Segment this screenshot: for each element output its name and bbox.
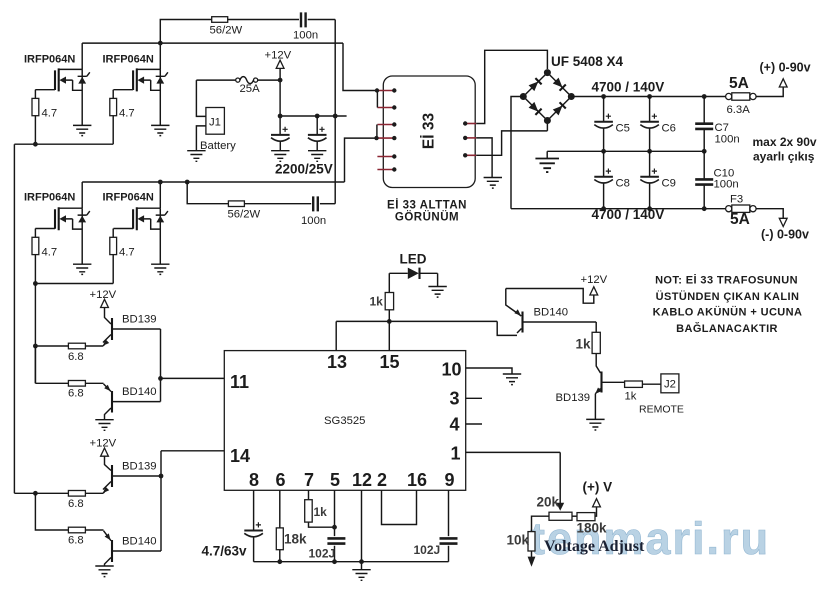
svg-text:15: 15	[380, 352, 400, 372]
resistor 18k	[276, 528, 283, 550]
svg-text:max 2x 90v: max 2x 90v	[753, 135, 817, 149]
svg-text:UF 5408 X4: UF 5408 X4	[551, 54, 624, 69]
svg-text:4.7: 4.7	[119, 108, 135, 120]
ground Q10	[586, 419, 604, 430]
ground pin10	[503, 374, 521, 385]
wire Q3 drain to rail B	[81, 182, 83, 208]
svg-text:Eİ 33: Eİ 33	[421, 113, 438, 150]
wire +12V to Q7 collector	[105, 456, 112, 470]
node mid C5	[601, 149, 606, 154]
terminal plus V arrow	[593, 499, 601, 507]
svg-text:ÜSTÜNDEN ÇIKAN KALIN: ÜSTÜNDEN ÇIKAN KALIN	[656, 290, 800, 303]
node bridge top	[544, 69, 551, 76]
node rail C6	[647, 94, 652, 99]
wire short L1-L2	[376, 91, 378, 108]
wire gate bus lower pair	[35, 283, 113, 285]
resistor R gate2 4.7	[110, 98, 117, 115]
node gate bus / R gate1	[33, 142, 38, 147]
svg-text:GÖRÜNÜM: GÖRÜNÜM	[395, 211, 459, 224]
resistor 56/2W upper	[212, 17, 228, 23]
ground mid rail	[546, 151, 548, 158]
power +12V arrow driver1	[101, 299, 109, 307]
node mid C7	[702, 149, 707, 154]
wire R gate4 to gate bus2	[112, 255, 114, 284]
resistor R gate4 4.7	[110, 237, 117, 254]
node rail C5	[601, 94, 606, 99]
svg-text:BD139: BD139	[556, 392, 591, 404]
wire battery J1 minus lead	[196, 126, 206, 151]
svg-text:C7: C7	[715, 122, 729, 134]
wire gate bus2 down to driver1 out	[34, 284, 36, 384]
ground cap 2200 a	[271, 151, 289, 162]
capacitor 4.7/63v	[244, 522, 263, 537]
diode D3 bridge bottom-left	[528, 102, 541, 115]
svg-text:18k: 18k	[284, 532, 307, 547]
wire branch to 6.8d	[35, 493, 68, 530]
svg-text:5A: 5A	[729, 75, 749, 92]
ground transformer R2	[484, 178, 502, 189]
node rail B / snubber2	[185, 180, 190, 185]
transistor Q1 IRFP064N	[35, 68, 91, 135]
transformer pin L1	[377, 90, 394, 92]
wire snubber2 mid	[244, 203, 311, 205]
wire 1k to J2	[642, 383, 661, 385]
wire 6.8a to gate node	[35, 345, 68, 347]
capacitor 102J b	[440, 538, 458, 543]
svg-text:102J: 102J	[309, 547, 336, 561]
fuse 5A plus	[726, 93, 732, 99]
fuse 25A	[236, 78, 240, 82]
transformer pin R1	[465, 123, 476, 125]
fuse F3 5A minus	[726, 206, 732, 212]
potentiometer 20k	[549, 512, 572, 520]
arrow 10k to minus	[528, 557, 536, 567]
resistor R gate3 4.7	[32, 237, 39, 254]
svg-text:25A: 25A	[240, 83, 261, 95]
svg-text:6.8: 6.8	[68, 388, 84, 400]
svg-text:6.8: 6.8	[68, 498, 84, 510]
svg-text:+12V: +12V	[90, 289, 117, 301]
svg-text:Battery: Battery	[200, 140, 236, 152]
terminal minus arrow	[779, 218, 787, 226]
wire Q2 drain to rail A	[159, 43, 161, 69]
wire emitter Q7 to 6.8c	[85, 492, 104, 494]
diode LED	[389, 272, 437, 274]
svg-text:1k: 1k	[370, 295, 384, 309]
svg-text:10: 10	[442, 360, 462, 380]
wire pin12 down	[361, 490, 363, 569]
resistor 6.8 d	[68, 527, 85, 533]
ground LED	[428, 287, 446, 298]
resistor 6.8 a	[68, 343, 85, 349]
svg-text:4700 / 140V: 4700 / 140V	[592, 80, 665, 95]
node driver1 out	[33, 344, 38, 349]
power +12V arrow battery	[276, 60, 284, 68]
rectifier bridge UF5408 edges	[523, 73, 571, 121]
svg-text:56/2W: 56/2W	[228, 209, 261, 221]
node rail B / Q4	[158, 180, 163, 185]
wire short L3-L4	[376, 125, 378, 139]
svg-text:(+) 0-90v: (+) 0-90v	[760, 61, 811, 75]
svg-text:F3: F3	[730, 194, 743, 206]
svg-text:6.3A: 6.3A	[727, 104, 751, 116]
svg-text:4.7: 4.7	[119, 246, 135, 258]
capacitor C6	[649, 97, 651, 152]
transformer pin L2	[377, 107, 394, 109]
svg-text:6.8: 6.8	[68, 351, 84, 363]
wire pin R2 to ground	[476, 138, 492, 178]
wire led node bus	[336, 321, 517, 335]
connector J2	[661, 374, 679, 393]
svg-text:6.8: 6.8	[68, 535, 84, 547]
node pin L1 external	[375, 88, 379, 92]
svg-text:11: 11	[230, 372, 249, 392]
capacitor 100n lower	[313, 196, 318, 211]
wire bottom rail	[254, 561, 449, 563]
wire +12V to Q5 collector	[105, 308, 112, 325]
wire pin 11	[161, 377, 225, 379]
capacitor C9	[649, 151, 651, 208]
svg-text:180k: 180k	[577, 521, 608, 536]
power +12V arrow right	[590, 287, 598, 295]
wire Q2 gate down	[112, 90, 114, 99]
diode D1 bridge top-left	[528, 78, 541, 91]
svg-text:12: 12	[352, 470, 372, 490]
wire driver1 base bus	[160, 329, 162, 402]
svg-text:J2: J2	[664, 379, 676, 391]
wire pin4 stub	[466, 423, 482, 425]
svg-text:9: 9	[445, 470, 455, 490]
svg-text:J1: J1	[209, 117, 221, 129]
svg-text:100n: 100n	[715, 134, 740, 146]
node rail 102J	[332, 559, 337, 564]
wire LED cathode to ground	[437, 273, 439, 286]
wire pin6 down	[279, 490, 281, 561]
svg-text:100n: 100n	[714, 179, 739, 191]
wire fuse to plus terminal	[756, 87, 783, 97]
transistor Q3 IRFP064N	[35, 207, 91, 274]
wire fuse to +12V node	[258, 79, 280, 81]
svg-text:56/2W: 56/2W	[210, 25, 243, 37]
wire pin3 stub	[466, 397, 482, 399]
node bot C10	[702, 206, 707, 211]
ground Q8	[95, 566, 113, 577]
diode D4 bridge bottom-right	[553, 102, 566, 115]
svg-text:REMOTE: REMOTE	[639, 404, 684, 416]
svg-text:BD140: BD140	[122, 536, 157, 548]
svg-text:BD140: BD140	[122, 386, 157, 398]
wire pin15 up	[388, 321, 390, 350]
svg-text:100n: 100n	[301, 215, 326, 227]
wire snubber2 left riser	[187, 182, 228, 204]
wire pot left to 10k	[532, 516, 550, 531]
node bridge right	[568, 93, 575, 100]
node rail pin12	[359, 559, 364, 564]
transistor Q6 BD140	[111, 391, 113, 413]
svg-text:4.7/63v: 4.7/63v	[202, 544, 248, 559]
wire emitter1 to 6.8a	[85, 344, 104, 346]
transistor Q8 BD140	[111, 540, 113, 562]
node pin14 junction	[159, 474, 164, 479]
wire rail B	[82, 138, 374, 182]
wire pin7 down	[309, 490, 335, 527]
svg-text:IRFP064N: IRFP064N	[103, 192, 154, 204]
svg-text:NOT: Eİ 33 TRAFOSUNUN: NOT: Eİ 33 TRAFOSUNUN	[655, 274, 798, 287]
transistor Q9 BD140	[521, 312, 523, 333]
wire +12V rail to caps	[280, 115, 347, 117]
wire mid rail	[547, 150, 704, 152]
capacitor C8	[603, 151, 605, 208]
svg-text:2200/25V: 2200/25V	[275, 162, 333, 177]
node +12V rail / cap1	[278, 114, 283, 119]
wire pin R3 to bridge bottom	[476, 121, 547, 155]
svg-text:2: 2	[377, 470, 387, 490]
ground battery	[187, 151, 205, 162]
svg-text:16: 16	[407, 470, 427, 490]
ground pin12	[352, 570, 370, 581]
wire snubber1 right riser	[308, 20, 336, 204]
wire Q1 drain to rail A	[81, 43, 83, 69]
diode D2 bridge top-right	[553, 77, 566, 90]
resistor 10k	[528, 532, 535, 551]
node bridge bottom	[544, 117, 551, 124]
svg-text:5A: 5A	[730, 211, 750, 228]
svg-text:13: 13	[327, 352, 347, 372]
svg-text:102J: 102J	[414, 543, 441, 557]
svg-text:+12V: +12V	[265, 50, 292, 62]
svg-text:C5: C5	[616, 123, 630, 135]
node driver2 out	[33, 491, 38, 496]
svg-text:1: 1	[451, 444, 461, 464]
svg-text:14: 14	[230, 446, 250, 466]
svg-text:7: 7	[304, 470, 314, 490]
resistor 56/2W lower	[228, 201, 244, 207]
wire gate bus upper pair	[14, 143, 113, 145]
svg-text:KABLO AKÜNÜN + UCUNA: KABLO AKÜNÜN + UCUNA	[653, 306, 803, 319]
transistor Q10 BD139	[600, 372, 602, 393]
wire pin9 down	[448, 490, 450, 561]
wire 6.8b to emitter2	[85, 382, 103, 384]
svg-text:IRFP064N: IRFP064N	[24, 192, 75, 204]
node fuse / +12V	[278, 78, 283, 83]
wire 6.8b left	[35, 346, 68, 383]
ground Q6	[95, 420, 113, 431]
ground cap 2200 b	[308, 151, 326, 162]
transistor Q2 IRFP064N	[113, 68, 169, 135]
capacitor 2200/25V b	[308, 127, 327, 142]
IC U1 SG3525 box	[224, 351, 465, 491]
wire Q4 gate down	[112, 229, 114, 238]
svg-text:BD140: BD140	[534, 307, 569, 319]
resistor 1k led	[388, 273, 390, 321]
transformer T1 body EI33	[383, 76, 475, 188]
svg-text:BAĞLANACAKTIR: BAĞLANACAKTIR	[676, 322, 778, 335]
wire pin5 down	[334, 490, 336, 561]
svg-text:20k: 20k	[537, 495, 560, 510]
node gate bus2	[33, 281, 38, 286]
capacitor C7 100n	[703, 97, 705, 152]
transistor Q4 IRFP064N	[113, 207, 169, 274]
node +12V rail / cap2	[315, 114, 320, 119]
node rail A / Q2 / snubber1	[158, 41, 163, 46]
wire R gate1 to gate bus	[34, 116, 36, 145]
svg-text:100n: 100n	[293, 30, 318, 42]
transistor Q7 BD139	[111, 465, 113, 487]
svg-text:1k: 1k	[576, 337, 592, 352]
svg-text:Voltage Adjust: Voltage Adjust	[544, 538, 645, 555]
wire snubber1 left riser	[160, 20, 211, 44]
transformer pin L4	[377, 137, 394, 139]
wire 180k to plusV	[595, 507, 597, 516]
wire pin8 down	[253, 490, 255, 561]
node pin11 junction	[158, 376, 163, 381]
wire battery J1 plus lead	[196, 80, 206, 116]
wire 10k down	[531, 551, 533, 557]
resistor 1k pin7	[305, 500, 313, 522]
svg-text:(+) V: (+) V	[583, 480, 613, 495]
wire driver2 out bus	[14, 492, 68, 494]
capacitor 2200/25V a	[271, 127, 290, 142]
svg-text:SG3525: SG3525	[324, 415, 365, 427]
wire +12V to fuse node	[279, 68, 281, 134]
resistor R gate1 4.7	[32, 98, 39, 115]
transistor Q5 BD139	[111, 318, 113, 340]
svg-text:LED: LED	[400, 252, 427, 267]
svg-text:4: 4	[450, 415, 460, 435]
wire pin R1 to bridge top	[476, 50, 547, 123]
svg-text:5: 5	[330, 470, 340, 490]
svg-text:+12V: +12V	[581, 274, 608, 286]
transformer pin R2	[465, 137, 476, 139]
arrow pot wiper	[556, 503, 564, 511]
svg-text:4700 / 140V: 4700 / 140V	[592, 207, 665, 222]
node rail 18k	[277, 559, 282, 564]
wire Q1 gate down	[34, 90, 36, 99]
wire Q3 gate down	[34, 229, 36, 238]
node bot C9	[647, 206, 652, 211]
wire driver2 base bus	[160, 451, 162, 551]
node led bus	[387, 319, 392, 324]
svg-text:1k: 1k	[314, 505, 328, 519]
wire snubber1 mid	[228, 19, 299, 21]
wire pin10	[466, 368, 512, 374]
svg-text:C6: C6	[662, 123, 676, 135]
node pin L4 external	[374, 136, 378, 140]
svg-text:+12V: +12V	[90, 438, 117, 450]
resistor 180k	[577, 513, 595, 521]
svg-text:ayarlı çıkış: ayarlı çıkış	[753, 150, 815, 164]
wire bridge left to minus rail	[511, 97, 523, 209]
wire 6.8d to emitter Q8	[85, 529, 103, 531]
node bot C8	[601, 206, 606, 211]
wire R gate3 to gate bus2	[34, 255, 36, 284]
wire +12V right to BD140 emitter	[506, 289, 594, 317]
wire fuse F3 to minus terminal	[756, 209, 783, 219]
svg-text:(-) 0-90v: (-) 0-90v	[761, 228, 809, 242]
wire pin 14	[161, 450, 224, 452]
svg-text:C9: C9	[662, 178, 676, 190]
wire pin1 to pot	[466, 452, 561, 503]
wire Q4 drain to rail B	[159, 182, 161, 208]
wire cap2 riser	[316, 116, 318, 135]
terminal plus arrow	[779, 79, 787, 87]
wire snubber2 right	[320, 203, 335, 205]
svg-text:BD139: BD139	[122, 314, 157, 326]
wire minus rail bottom	[511, 208, 726, 210]
wire battery plus to fuse	[196, 79, 235, 81]
resistor 1k right vertical	[596, 322, 600, 373]
resistor 1k remote	[625, 381, 643, 387]
node pin7-pin5	[332, 525, 337, 530]
node mid C6	[647, 149, 652, 154]
power +12V arrow driver2	[101, 448, 109, 456]
svg-text:IRFP064N: IRFP064N	[24, 54, 75, 66]
transformer pin L3	[377, 124, 394, 126]
svg-text:8: 8	[249, 470, 259, 490]
wire left bus down	[13, 144, 15, 493]
node rail C7	[702, 94, 707, 99]
transformer pin L5	[377, 156, 394, 158]
svg-text:3: 3	[450, 389, 460, 409]
wire rail A	[82, 43, 376, 90]
wire pin2 pin16 link	[382, 490, 417, 524]
wire R gate2 to gate bus	[112, 116, 114, 145]
capacitor C5	[603, 97, 605, 152]
capacitor 100n upper	[301, 12, 306, 27]
transformer pin R3	[465, 154, 476, 156]
svg-text:6: 6	[276, 470, 286, 490]
svg-text:C8: C8	[616, 178, 630, 190]
transformer pin L6	[377, 169, 394, 171]
node bridge left	[520, 93, 527, 100]
wire pot to 180k	[572, 515, 577, 517]
svg-text:Eİ 33 ALTTAN: Eİ 33 ALTTAN	[387, 199, 467, 212]
resistor 6.8 b	[68, 381, 85, 387]
capacitor 102J a	[327, 538, 345, 543]
resistor 6.8 c	[68, 491, 85, 497]
wire pin13 up	[335, 321, 337, 350]
svg-text:IRFP064N: IRFP064N	[103, 54, 154, 66]
svg-text:BD139: BD139	[122, 461, 157, 473]
svg-text:4.7: 4.7	[42, 246, 58, 258]
svg-text:1k: 1k	[625, 391, 637, 403]
connector J1	[206, 108, 225, 135]
svg-text:10k: 10k	[507, 533, 530, 548]
svg-text:4.7: 4.7	[42, 108, 58, 120]
capacitor C10 100n	[703, 151, 705, 208]
node +12V rail / snubber riser	[333, 114, 338, 119]
wire plus rail top	[571, 96, 725, 98]
